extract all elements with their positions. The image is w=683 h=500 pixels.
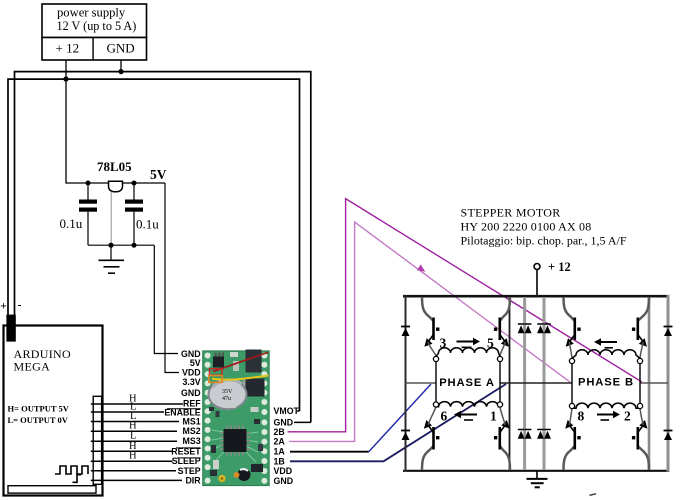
svg-text:MEGA: MEGA: [14, 360, 51, 374]
winding phase A terminals: [433, 356, 438, 361]
motor bridge phase A right leg (full height): [509, 297, 511, 470]
winding phase B bottom (pins 8-2): [572, 403, 640, 408]
diode D1 (left edge top): [401, 327, 410, 337]
winding phase A top (pins 3-5): [436, 348, 500, 357]
arrow phase A top (right): [457, 338, 481, 348]
diode pair D6 (middle leg 2 bottom): [537, 430, 551, 439]
svg-text:2: 2: [624, 409, 631, 424]
diode D7 (right edge top): [664, 327, 673, 337]
wire MS1: [91, 421, 179, 423]
power jack J1: [6, 315, 15, 342]
wire +12 feed to regulator: [66, 79, 165, 183]
wire STEP: [91, 470, 176, 472]
svg-text:VDD: VDD: [274, 466, 293, 476]
wire REF: [91, 403, 183, 405]
stray mark bottom right: [590, 494, 597, 496]
svg-text:3.3V: 3.3V: [182, 377, 200, 387]
transistor Q6 (phase A bottom right): [494, 407, 510, 470]
svg-text:0.1u: 0.1u: [60, 216, 83, 231]
ground symbol GND2 (motor): [527, 471, 548, 488]
winding phase B terminals: [569, 358, 574, 363]
ground symbol GND1: [99, 245, 125, 273]
node dot C2 bottom: [132, 243, 137, 248]
wire mid rail right of phase B: [640, 382, 668, 384]
node arrowhead on 2A wire: [417, 264, 425, 271]
winding phase A bottom (pins 6-1): [436, 402, 500, 407]
power supply PS1 box: [42, 4, 147, 60]
svg-text:2B: 2B: [274, 427, 285, 437]
capacitor C2 0.1u: [125, 183, 159, 245]
wire ground rail under caps: [88, 244, 154, 246]
transistor Q1 (phase A top left): [422, 297, 439, 356]
svg-text:STEPPER MOTOR: STEPPER MOTOR: [461, 206, 561, 220]
wire +12 horizontal rail: [8, 79, 300, 411]
svg-text:78L05: 78L05: [97, 159, 132, 174]
node dot C2 top: [132, 181, 137, 186]
diode D8 (right edge bottom): [664, 431, 673, 441]
svg-text:5V: 5V: [190, 358, 201, 368]
capacitor C1 0.1u: [60, 183, 98, 245]
svg-text:+ 12: + 12: [548, 260, 571, 274]
wire GND horizontal rail: [15, 72, 311, 423]
Arduino bottom connector bar: [8, 486, 96, 493]
driver board pads: [205, 353, 268, 484]
transistor Q3 (phase B top left): [564, 297, 581, 358]
node junction GND: [118, 69, 123, 74]
svg-text:3: 3: [440, 336, 447, 351]
motor bridge top rail: [403, 295, 670, 298]
Arduino MEGA box: [4, 326, 103, 496]
svg-text:8: 8: [578, 409, 585, 424]
wire SLEEP: [91, 460, 173, 462]
svg-text:MS3: MS3: [183, 436, 201, 446]
svg-text:+: +: [0, 301, 7, 313]
motor bridge left edge: [405, 295, 407, 472]
transistor Q4 (phase B top right): [632, 297, 649, 358]
driver board U2 (A4988 photo): [203, 350, 270, 486]
svg-text:1B: 1B: [274, 456, 285, 466]
winding phase B box sides: [571, 364, 573, 404]
svg-text:35V: 35V: [222, 389, 233, 395]
wire 1A horizontal: [290, 451, 369, 453]
driver electrolytic capacitor: [209, 380, 247, 410]
connector bus to driver: [93, 396, 101, 484]
winding phase B top: [572, 350, 640, 359]
svg-text:0.1u: 0.1u: [136, 217, 159, 232]
svg-text:GND: GND: [107, 40, 135, 55]
svg-text:power supply: power supply: [57, 5, 126, 19]
wire 2A to motor phase B (light magenta): [289, 222, 570, 441]
svg-text:PHASE B: PHASE B: [578, 377, 634, 389]
svg-text:DIR: DIR: [185, 475, 201, 485]
wire 1B to phase A (navy): [290, 384, 506, 461]
wire mid rail phase A to phase B: [500, 382, 572, 384]
wire ENABLE: [91, 411, 164, 413]
transistor Q5 (phase A bottom left): [422, 407, 439, 470]
svg-text:5: 5: [487, 336, 494, 351]
svg-text:HY 200 2220 0100 AX 08: HY 200 2220 0100 AX 08: [461, 220, 592, 234]
svg-text:1: 1: [490, 409, 497, 424]
diode pair D4 (middle leg 2 top): [537, 324, 551, 333]
wire DIR: [91, 479, 182, 481]
svg-text:MS1: MS1: [183, 417, 201, 427]
svg-text:12 V (up to 5 A): 12 V (up to 5 A): [57, 19, 137, 33]
svg-text:VMOT: VMOT: [274, 406, 300, 416]
svg-text:PHASE A: PHASE A: [439, 377, 495, 389]
motor bridge middle leg 1: [523, 297, 526, 470]
winding phase A box sides: [435, 362, 437, 403]
wire +12 stub from PS1: [65, 60, 67, 79]
svg-text:1A: 1A: [274, 447, 286, 457]
svg-text:-: -: [18, 300, 22, 312]
svg-text:GND: GND: [274, 476, 294, 486]
wire +12 to motor bridge: [536, 270, 538, 297]
wire RESET: [91, 450, 173, 452]
motor bridge middle leg 2: [543, 297, 546, 470]
yellow annotation wire on board: [212, 376, 269, 380]
svg-text:47u: 47u: [222, 396, 231, 402]
svg-text:GND: GND: [181, 388, 201, 398]
node dot ground tap: [108, 243, 113, 248]
wire VMOT to +12 rail: [297, 410, 300, 412]
step edge glyph: [73, 475, 82, 483]
wire GND stub from PS1: [120, 60, 122, 72]
node +12 motor terminal: [534, 264, 540, 270]
driver small transistor: [213, 357, 224, 368]
transistor Q7 (phase B bottom left): [564, 409, 581, 471]
wire 5V to driver VDD pin: [165, 183, 179, 373]
diode D2 (left edge bottom): [401, 431, 410, 441]
svg-text:6: 6: [441, 409, 448, 424]
svg-text:+ 12: + 12: [56, 40, 80, 55]
transistor Q8 (phase B bottom right): [632, 409, 649, 471]
motor bridge right edge: [667, 295, 670, 472]
wire driver GND to GND rail: [294, 421, 311, 423]
driver IC A4988: [224, 429, 247, 452]
svg-text:Pilotaggio: bip. chop. par., 1: Pilotaggio: bip. chop. par., 1,5 A/F: [461, 234, 627, 248]
arrow phase B top (left): [594, 338, 617, 348]
arrow phase A bottom (left): [454, 411, 477, 420]
svg-text:H: H: [129, 451, 137, 462]
svg-text:STEP: STEP: [178, 466, 201, 476]
wire 1A diagonal to phase A (blue): [369, 384, 431, 452]
motor bridge phase B right leg (full height): [648, 297, 651, 470]
wire mid rail left of phase A: [406, 382, 437, 384]
svg-text:H= OUTPUT 5V: H= OUTPUT 5V: [8, 404, 70, 414]
svg-text:L= OUTPUT 0V: L= OUTPUT 0V: [8, 415, 69, 425]
svg-text:MS2: MS2: [183, 426, 201, 436]
wire MS3: [91, 440, 177, 442]
square wave clock glyph: [55, 466, 88, 474]
transistor Q2 (phase A top right): [494, 297, 510, 356]
node junction +12: [63, 76, 68, 81]
red annotation wire on board: [213, 353, 268, 372]
wire 2B to motor phase B (magenta): [288, 199, 642, 432]
node dot C1 top: [86, 181, 91, 186]
diode pair D5 (middle leg 1 bottom): [518, 430, 532, 439]
regulator U1 78L05: [109, 181, 123, 192]
diode pair D3 (middle leg 1 top): [518, 324, 532, 333]
svg-text:2A: 2A: [274, 436, 286, 446]
wire MS2: [91, 430, 177, 432]
wire ground to driver GND pin: [154, 245, 178, 353]
arrow phase B bottom (right): [597, 411, 620, 420]
svg-text:5V: 5V: [150, 167, 167, 182]
motor bridge bottom rail: [403, 470, 670, 472]
